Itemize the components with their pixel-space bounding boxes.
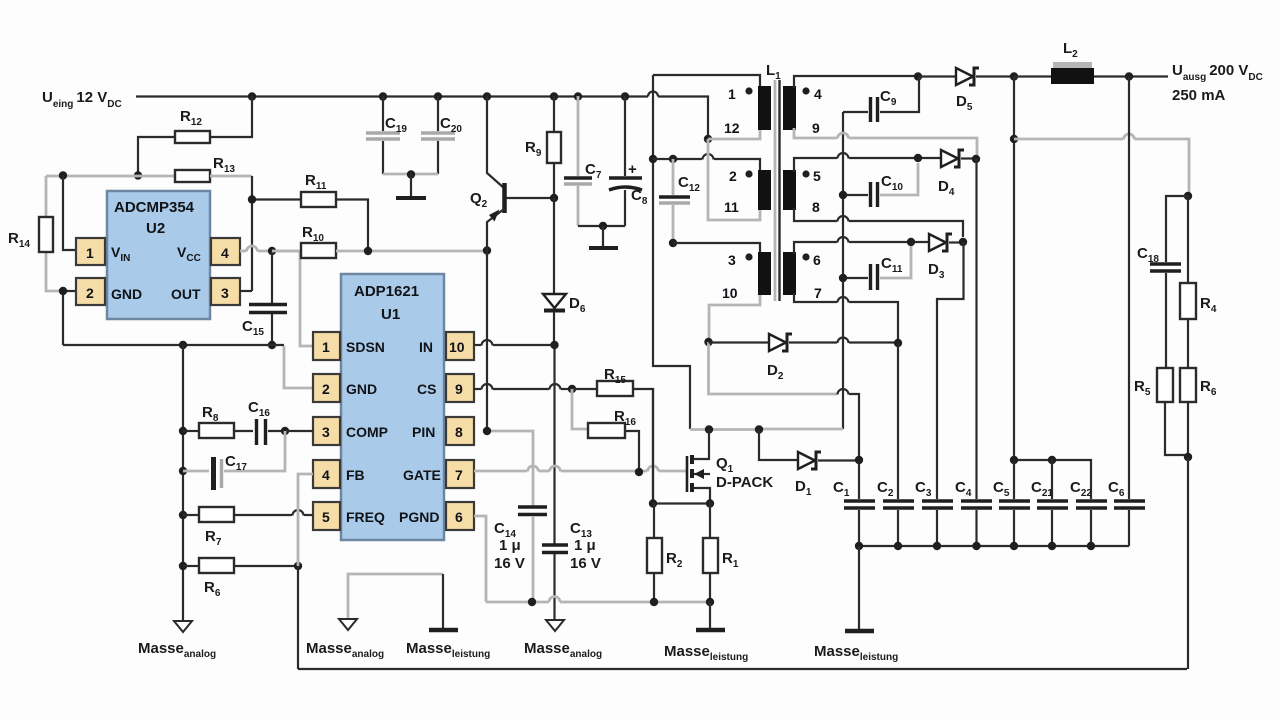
- junction divider bottom node: [1184, 453, 1192, 461]
- wire: R12 right lead riser to 12V rail: [210, 97, 252, 138]
- svg-text:IN: IN: [419, 339, 433, 355]
- junction Q2 base/R9/D6: [550, 194, 558, 202]
- junction R10 row / Q2 emitter: [483, 246, 491, 254]
- diode D4 (Schottky): [938, 150, 964, 198]
- resistor R6: [183, 558, 298, 599]
- svg-text:4: 4: [221, 245, 229, 261]
- junction pin10 column/D2 row: [704, 338, 712, 346]
- wire: D1 cathode to C1 node: [818, 459, 859, 461]
- junction rail/C22: [1087, 542, 1095, 550]
- svg-text:3: 3: [728, 252, 736, 268]
- junction rail/C3: [933, 542, 941, 550]
- U1 pin 4: [313, 460, 340, 488]
- svg-text:2: 2: [729, 168, 737, 184]
- wire: Q2 emitter column down to U1 PIN pin 8: [486, 250, 488, 431]
- ground Masse analog mid: [306, 619, 384, 660]
- U1 pin 5: [313, 502, 340, 530]
- svg-text:9: 9: [455, 381, 463, 397]
- junction rail/C21: [1048, 542, 1056, 550]
- svg-text:8: 8: [455, 424, 463, 440]
- wire: R12 left lead down to R13 row: [138, 137, 175, 175]
- wire: snubber row to D1 cathode (hops AC column): [838, 389, 860, 460]
- U1 pin 6: [446, 502, 474, 530]
- capacitor C11: [843, 246, 911, 290]
- U1 pin 2: [313, 374, 340, 402]
- svg-text:6: 6: [813, 252, 821, 268]
- resistor R6 output divider: [1180, 368, 1217, 457]
- resistor R8: [183, 404, 253, 438]
- wire: pin 9 gray lead to D4 cathode node: [794, 128, 977, 155]
- wire: D5 cathode to output node: [976, 75, 1014, 77]
- capacitor C17: [183, 453, 247, 490]
- wire: Q1 source row: [653, 502, 710, 504]
- junction U2 GND/R14: [59, 287, 67, 295]
- wire: C5 lead: [1013, 460, 1015, 499]
- phase dot winding2 primary: [745, 170, 752, 177]
- wire: D1 anode branch: [759, 430, 798, 461]
- svg-text:FREQ: FREQ: [346, 509, 385, 525]
- wire: FB riser from pin 4 down to feedback bus: [298, 474, 313, 566]
- svg-text:5: 5: [322, 509, 330, 525]
- svg-text:250 mA: 250 mA: [1172, 87, 1226, 104]
- junction R11/R10 right leads: [364, 247, 372, 255]
- junction pin7/D2/C2 node: [894, 339, 902, 347]
- winding 1 secondary bar: [783, 86, 796, 130]
- IC U1 ADP1621 body: [341, 274, 444, 540]
- wire: U1 PGND pin 6 to power bus: [474, 516, 486, 602]
- junction rail/C2: [894, 542, 902, 550]
- junction pin5 row/C10 right lead: [914, 154, 922, 162]
- U1 pin 10: [446, 332, 474, 360]
- wire: COMP stub to pin 3: [285, 430, 313, 432]
- wire: Q2 base column down to U1 IN row and C13: [553, 345, 555, 544]
- wire: AC column x843 (C9/C10/C11 left plates to drain row): [842, 112, 844, 429]
- wire: D2 cathode to C2 node (hops AC column): [789, 338, 898, 343]
- capacitor C8 electrolytic: [609, 96, 648, 226]
- junction D4 cathode node: [972, 155, 980, 163]
- svg-text:16 V: 16 V: [570, 555, 601, 572]
- phase dot winding1 primary: [745, 87, 752, 94]
- U1 pin 9: [446, 374, 474, 402]
- U1 pin 3: [313, 417, 340, 445]
- wire: drain row from switching branch to D1/AC column: [690, 428, 759, 431]
- wire: pin10 column to snubber row: [709, 342, 838, 394]
- junction C21 bracket: [1048, 456, 1056, 464]
- svg-text:5: 5: [813, 168, 821, 184]
- junction pin6 row/C11 right lead: [907, 238, 915, 246]
- svg-text:6: 6: [455, 509, 463, 525]
- wire: U2 Vcc row to R10 (hop over pull-up column): [240, 246, 301, 251]
- junction GATE row/R16: [635, 468, 643, 476]
- junction D5 column/divider row: [1010, 135, 1018, 143]
- svg-text:D-PACK: D-PACK: [716, 474, 773, 491]
- node Ueing: input supply label 12 V DC: [42, 89, 122, 110]
- capacitor C18: [1137, 196, 1188, 368]
- wire: pin 6 row with D3: [794, 237, 929, 254]
- capacitor C22: [1070, 479, 1107, 546]
- svg-text:COMP: COMP: [346, 424, 388, 440]
- capacitor C21: [1031, 479, 1068, 546]
- wire: U2 gray frame left (Vcc row corner down through R14 to GND): [46, 176, 63, 291]
- junction switching column/winding2 top row: [649, 155, 657, 163]
- svg-text:GND: GND: [111, 286, 142, 302]
- resistor R7: [183, 507, 234, 548]
- junction 12V/C7: [574, 92, 582, 100]
- phase dot winding3 primary: [745, 253, 752, 260]
- junction 12V/R9: [550, 92, 558, 100]
- U2 pin 4: [211, 238, 240, 265]
- junction CS/R15/R16: [568, 385, 576, 393]
- svg-text:4: 4: [814, 86, 822, 102]
- U1 pin 8: [446, 417, 474, 445]
- U2 pin 3: [211, 278, 240, 305]
- wire: switching-node column x653 (pin1 / C12 / drain branch): [653, 75, 690, 429]
- svg-text:7: 7: [455, 467, 463, 483]
- svg-text:U2: U2: [146, 220, 165, 237]
- resistor R1: [703, 503, 739, 602]
- ground Masse leistung under R1: [664, 630, 748, 663]
- wire: left analog rail: [182, 345, 184, 621]
- junction R11 row / pull-up column: [248, 195, 256, 203]
- wire: divider bottom to feedback bus: [1187, 457, 1189, 669]
- junction source row/R1: [706, 499, 714, 507]
- wire: pin 3 row: [673, 243, 760, 254]
- IC U2 ADCMP354 body: [107, 191, 210, 319]
- wire: capacitor bank bottom rail: [859, 545, 1129, 547]
- resistor R2: [647, 503, 683, 602]
- capacitor C7: [564, 96, 602, 226]
- capacitor C10: [843, 163, 918, 207]
- wire: U1 PIN pin 8 gray riser to C14: [487, 431, 533, 506]
- junction divider top node: [1184, 192, 1192, 200]
- winding 1 primary bar: [758, 86, 771, 130]
- wire: pin 4 lead to output rectifier row: [794, 76, 918, 88]
- junction source row/R2: [649, 499, 657, 507]
- svg-text:16 V: 16 V: [494, 555, 525, 572]
- svg-text:10: 10: [449, 339, 465, 355]
- junction 12V/C8: [621, 92, 629, 100]
- svg-text:3: 3: [322, 424, 330, 440]
- svg-text:7: 7: [814, 285, 822, 301]
- resistor R16: [572, 389, 639, 472]
- resistor R4: [1180, 196, 1217, 368]
- diode D3 (Schottky): [928, 234, 952, 281]
- junction rail/C5: [1010, 542, 1018, 550]
- capacitor C15: [242, 251, 287, 345]
- svg-text:1 μ: 1 μ: [574, 537, 596, 554]
- junction D5 row/C9: [914, 72, 922, 80]
- wire: winding 2 top row to pin 2 (hops pin12 link): [653, 154, 760, 172]
- capacitor C1: [833, 460, 875, 546]
- winding 2 primary bar: [758, 170, 771, 210]
- U2 pin 1: [76, 238, 105, 265]
- svg-text:CS: CS: [417, 381, 436, 397]
- winding 2 secondary bar: [783, 170, 796, 210]
- transistor Q2 (PNP): [470, 96, 554, 250]
- svg-text:PGND: PGND: [399, 509, 439, 525]
- svg-text:FB: FB: [346, 467, 365, 483]
- wire: U1 GND riser: [284, 346, 313, 388]
- U2 pin 2: [76, 278, 105, 305]
- wire: U1 GATE pin 7 row to Q1 gate (hops C14, C13, R15 columns): [474, 466, 687, 472]
- wire: pin 8 row to D3 cathode: [794, 208, 963, 237]
- wire: CS sense column from R15 to Q1 source: [652, 388, 654, 503]
- wire: analog ground row under U2: [63, 344, 284, 346]
- svg-text:2: 2: [322, 381, 330, 397]
- resistor R5: [1134, 368, 1188, 455]
- junction R12/R13 row: [134, 171, 142, 179]
- resistor R15: [572, 366, 653, 503]
- wire: D3 cathode stub: [949, 241, 963, 243]
- svg-text:SDSN: SDSN: [346, 339, 385, 355]
- junction analog row / left analog rail: [179, 341, 187, 349]
- svg-text:9: 9: [812, 120, 820, 136]
- transistor Q1 MOSFET: [687, 455, 773, 503]
- wire: D5 node column down to C5: [1013, 77, 1015, 461]
- capacitor C13: [542, 520, 601, 572]
- junction IN row/Q2 base column: [550, 341, 558, 349]
- svg-text:12: 12: [724, 120, 740, 136]
- svg-text:OUT: OUT: [171, 286, 201, 302]
- capacitor C9: [843, 77, 919, 123]
- junction rail/R6 row: [179, 562, 187, 570]
- junction PIN row/Q2 emitter column: [483, 427, 491, 435]
- wire: rail to power ground: [858, 546, 860, 630]
- ground bar under C7/C8: [589, 246, 618, 250]
- ground bar under C19/C20: [396, 196, 426, 200]
- junction 12V/C19: [379, 92, 387, 100]
- wire: U1 IN pin 10 row: [474, 340, 555, 346]
- wire: R7 to FREQ pin 5 (hop over FB riser): [234, 510, 313, 516]
- junction R6/FB riser: [294, 562, 302, 570]
- capacitor C19: [366, 96, 407, 174]
- svg-text:GND: GND: [346, 381, 377, 397]
- junction D5 cathode/output rail: [1010, 72, 1018, 80]
- capacitor C16: [248, 399, 285, 445]
- wire: feedback bottom bus to output divider: [298, 668, 1187, 670]
- wire: R1 bottom to power ground: [709, 602, 711, 629]
- resistor R9: [525, 96, 561, 198]
- wire: L2 to output terminal: [1094, 75, 1168, 77]
- junction drain row/D1 anode branch: [755, 425, 763, 433]
- wire: pin 10 lead down to D2 anode: [709, 293, 760, 342]
- svg-text:ADP1621: ADP1621: [354, 283, 419, 300]
- junction COMP node: [281, 427, 289, 435]
- wire: C7/C8 common node to ground: [578, 222, 625, 247]
- junction D1 cathode/C1/snubber: [855, 456, 863, 464]
- capacitor C6: [1108, 479, 1145, 546]
- svg-text:GATE: GATE: [403, 467, 441, 483]
- junction D3 cathode node: [959, 238, 967, 246]
- capacitor C2: [877, 479, 914, 546]
- junction 12V/C20: [434, 92, 442, 100]
- wire: Vin riser from R13 row down to U2 pin 1: [63, 175, 76, 250]
- U1 pin 1: [313, 332, 340, 360]
- wire: analog-power ground link bracket: [348, 574, 443, 629]
- junction drain row/Q1 drain: [705, 425, 713, 433]
- svg-text:1 μ: 1 μ: [499, 537, 521, 554]
- capacitor C14: [494, 507, 547, 602]
- inductor L2: [1051, 40, 1094, 84]
- wire: R13 right lead to pull-up column: [210, 175, 252, 178]
- wire: D5 anode lead: [918, 75, 955, 77]
- wire: output rail to L2: [1014, 75, 1051, 77]
- capacitor C12: [659, 159, 700, 243]
- ground Masse leistung right: [814, 631, 898, 663]
- junction C12 bottom / pin 3 row: [669, 239, 677, 247]
- junction output rail/C6 column: [1125, 72, 1133, 80]
- resistor R13: [175, 155, 235, 182]
- junction rail/C1: [855, 542, 863, 550]
- wire: COMP gray riser down to C17 row: [224, 431, 285, 471]
- wire: Q1 drain lead: [694, 430, 709, 460]
- ground Masse analog left: [138, 621, 216, 660]
- wire: pin 7 row down to D2 node (hops AC column): [794, 293, 898, 339]
- wire: U1 CS pin 9 row (hops both columns): [474, 384, 572, 390]
- svg-text:U1: U1: [381, 306, 400, 323]
- resistor R10: [301, 224, 487, 258]
- wire: transformer pin 1 top lead: [653, 75, 760, 88]
- junction AC column/C10: [839, 191, 847, 199]
- diode D1 (Schottky): [795, 452, 821, 498]
- wire: U1 SDSN riser from Vcc row: [272, 251, 313, 346]
- svg-text:1: 1: [728, 86, 736, 102]
- wire: D2 row: [709, 341, 769, 343]
- wire: gray row from U2 frame corner to R13: [46, 175, 175, 178]
- ground Masse analog under C13: [524, 620, 602, 660]
- wire: power ground bus: [486, 601, 549, 604]
- junction 12V corner to pin 12: [704, 135, 712, 143]
- diode D2 (Schottky): [767, 334, 792, 382]
- ground Masse leistung mid: [406, 630, 490, 660]
- junction 12V/Q2 collector: [483, 92, 491, 100]
- svg-text:11: 11: [724, 199, 739, 215]
- wire: pull-up column x252 down to U2 OUT: [251, 176, 253, 291]
- phase dot winding2 secondary: [802, 170, 809, 177]
- junction 12V/R12 riser: [248, 92, 256, 100]
- junction bus/R1: [706, 598, 714, 606]
- svg-text:+: +: [628, 161, 637, 178]
- wire: gray row to divider (hops C6 column): [1014, 134, 1189, 196]
- capacitor C20: [421, 96, 462, 174]
- wire: D4 node column down to C4: [975, 159, 977, 499]
- junction rail/R7 row: [179, 511, 187, 519]
- transformer core: [775, 80, 780, 301]
- wire: +12V rail from input to transformer: [136, 97, 708, 140]
- resistor R14: [8, 217, 53, 252]
- node Uausg: output label 200 V DC 250 mA: [1172, 62, 1263, 104]
- wire: pin 5 row with D4: [794, 153, 940, 172]
- junction C5 bracket: [1010, 456, 1018, 464]
- phase dot winding3 secondary: [802, 253, 809, 260]
- U1 pin 7: [446, 460, 474, 488]
- wire: C21 lead: [1051, 460, 1053, 499]
- wire: C19/C20 common to ground: [383, 170, 438, 198]
- wire: C2 column: [897, 343, 899, 499]
- junction C15/analog ground row: [268, 341, 276, 349]
- resistor R11: [252, 172, 368, 251]
- svg-text:1: 1: [86, 245, 94, 261]
- svg-text:4: 4: [322, 467, 330, 483]
- junction AC column/C11: [839, 274, 847, 282]
- junction U2 frame/Vin riser: [59, 171, 67, 179]
- svg-text:PIN: PIN: [412, 424, 435, 440]
- wire: pin 12 lead: [708, 128, 760, 139]
- capacitor C5: [993, 479, 1030, 546]
- wire: D3 node column jog down to C3: [937, 242, 964, 499]
- wire: D4 cathode stub: [961, 157, 976, 159]
- wire: C13 lead to analog ground (hops power bus): [553, 554, 555, 620]
- junction bus/C14: [528, 598, 536, 606]
- resistor R12: [175, 108, 210, 143]
- capacitor C3: [915, 479, 953, 546]
- capacitor C4: [955, 479, 992, 546]
- junction bus/R2: [650, 598, 658, 606]
- svg-text:10: 10: [722, 285, 738, 301]
- diode D6: [543, 198, 586, 345]
- wire: C6 column: [1128, 77, 1130, 500]
- wire: U2 GND node down to analog row: [63, 291, 76, 345]
- wire: U2 OUT lead to pull-up column: [240, 290, 252, 292]
- wire: C5/C21/C22 top bracket: [1014, 460, 1091, 499]
- svg-text:8: 8: [812, 199, 820, 215]
- junction rail/C4: [972, 542, 980, 550]
- svg-text:1: 1: [322, 339, 330, 355]
- phase dot winding1 secondary: [802, 87, 809, 94]
- diode D5 (Schottky): [956, 68, 979, 113]
- junction rail/COMP row: [179, 427, 187, 435]
- winding 3 secondary bar: [783, 252, 796, 295]
- svg-text:2: 2: [86, 285, 94, 301]
- winding 3 primary bar: [758, 252, 771, 295]
- junction Vcc/C15 column: [268, 247, 276, 255]
- svg-text:ADCMP354: ADCMP354: [114, 199, 195, 216]
- wire: link pin12 to pin11: [708, 139, 760, 220]
- svg-text:3: 3: [221, 285, 229, 301]
- junction C12 top: [669, 155, 677, 163]
- junction rail/C17 row: [179, 467, 187, 475]
- bump: 12V rail hops switching column: [648, 92, 658, 97]
